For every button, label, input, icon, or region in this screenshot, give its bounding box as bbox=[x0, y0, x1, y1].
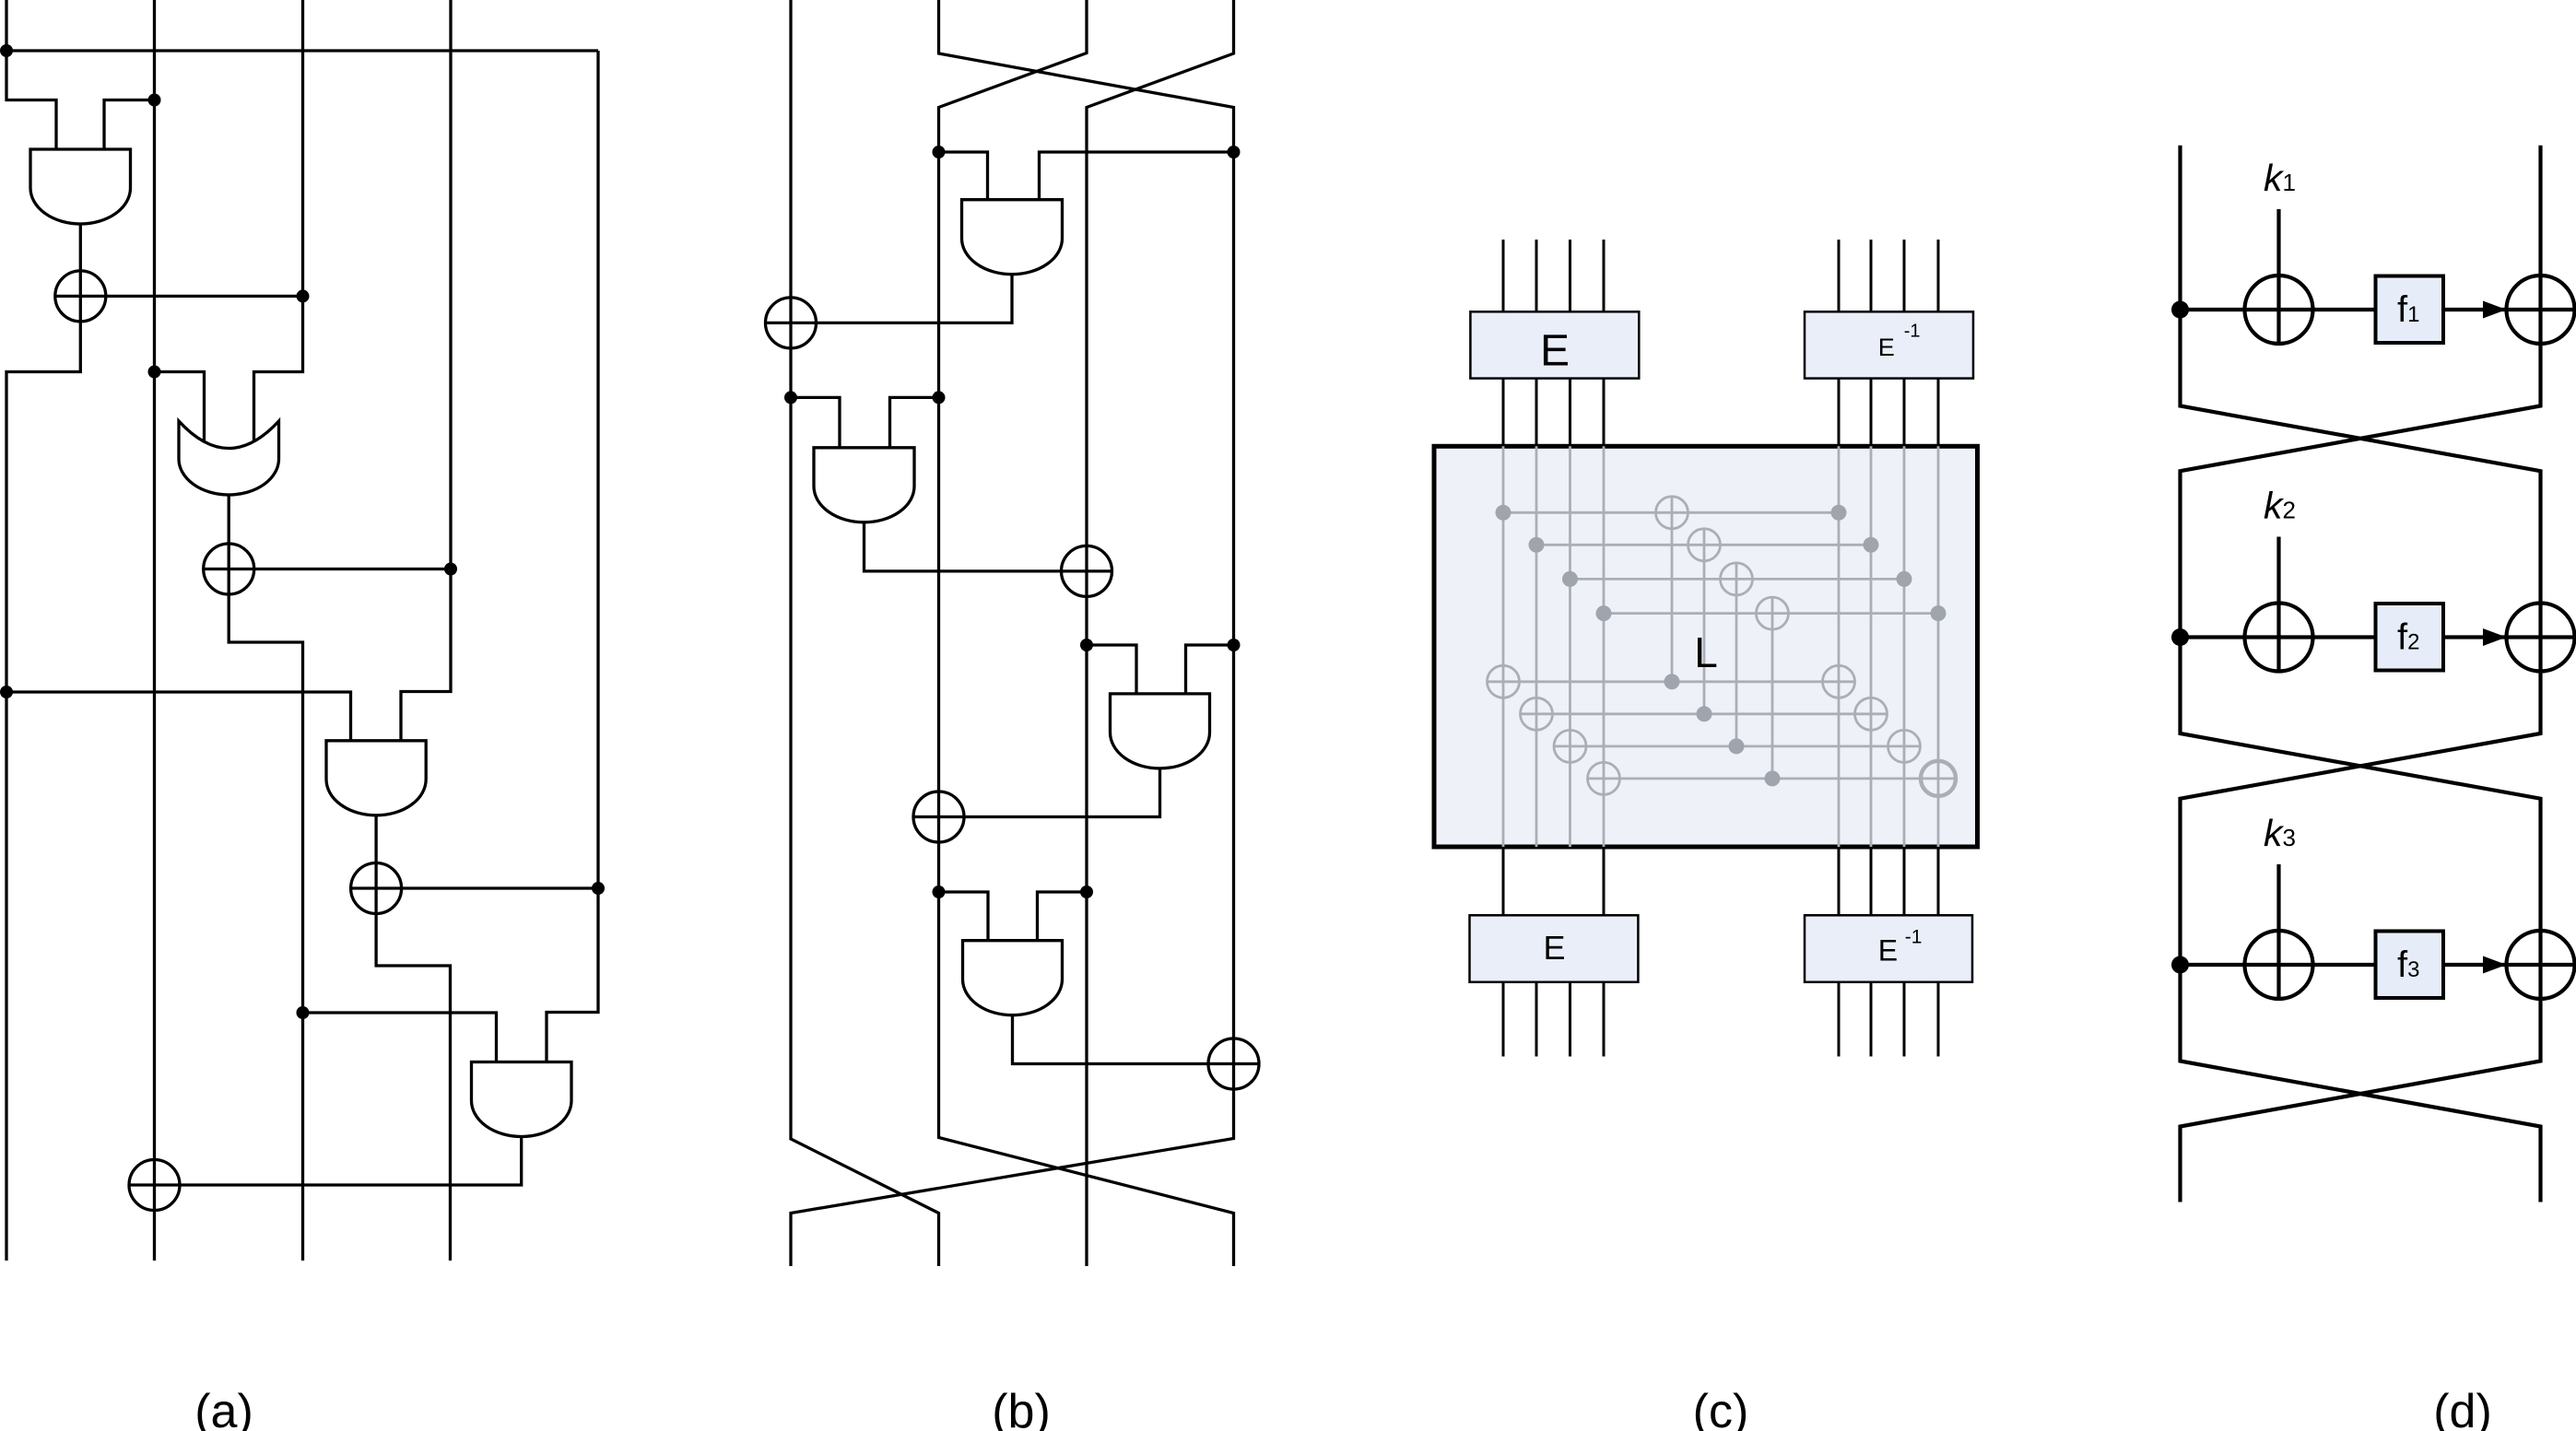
and gate A3 bbox=[326, 741, 426, 815]
wire AND4 output left through XOR X4 bbox=[129, 1137, 522, 1186]
svg-text:(c): (c) bbox=[1693, 1385, 1749, 1431]
junction dot L3 lower bbox=[297, 1006, 310, 1019]
cnot row 4 horizontal bbox=[1604, 612, 1938, 615]
xor gate Xd2 right bbox=[2507, 604, 2575, 672]
junction dot AND-B4 left bbox=[933, 886, 946, 898]
junction dot L1 top bbox=[0, 44, 13, 57]
arrowhead round 1 bbox=[2483, 301, 2507, 319]
xor gate XB3 bbox=[913, 792, 964, 842]
wire E bottom output stubs bbox=[1503, 982, 1604, 1057]
junction dot AND-B3 right bbox=[1228, 639, 1241, 651]
svg-text:-1: -1 bbox=[1904, 322, 1921, 342]
junction dot X1 on L3 bbox=[297, 289, 310, 302]
wire AND-B2 left input bbox=[791, 397, 840, 447]
svg-text:E: E bbox=[1878, 334, 1895, 361]
cnot row 2 control dots bbox=[1529, 537, 1545, 553]
cnot row 3 xor bbox=[1721, 563, 1753, 595]
wire AND1 right input from L2 bbox=[104, 100, 155, 150]
block L bbox=[1434, 446, 1978, 847]
wire L1 jog to AND1 left input bbox=[6, 51, 56, 149]
and gate BA4 bbox=[963, 941, 1063, 1015]
block E bottom bbox=[1470, 915, 1639, 982]
xor gate X3 bbox=[351, 863, 402, 914]
cnot row 3 control dots bbox=[1562, 571, 1578, 587]
wire round 3 main line bbox=[2181, 963, 2575, 967]
and gate BA3 bbox=[1111, 694, 1210, 768]
svg-text:E: E bbox=[1543, 929, 1565, 967]
cnot row 6 horizontal bbox=[1521, 712, 1888, 715]
wire AND-B3 left input bbox=[1087, 645, 1136, 694]
cnot row 5 horizontal bbox=[1488, 680, 1855, 683]
svg-text:E: E bbox=[1540, 327, 1570, 376]
xor gate XB2 bbox=[1062, 545, 1112, 596]
wire AND3 left input long horizontal from L1 bbox=[6, 692, 351, 741]
junction dot L1 middle bbox=[0, 686, 13, 698]
cnot row 1 target vertical bbox=[1671, 497, 1674, 682]
cnot row 4 xor bbox=[1757, 597, 1789, 629]
svg-text:k2: k2 bbox=[2264, 485, 2296, 527]
wire AND-B4 right input bbox=[1038, 892, 1088, 941]
wire AND-B4 left input bbox=[939, 892, 989, 941]
cnot row 3 horizontal bbox=[1570, 578, 1905, 581]
wire key k2 bbox=[2276, 537, 2280, 672]
arrowhead round 2 bbox=[2483, 628, 2507, 646]
cnot row 1 control dots bbox=[1496, 505, 1511, 521]
wire AND-B4 output right through XOR XB4 bbox=[1013, 1015, 1260, 1064]
svg-text:k3: k3 bbox=[2264, 812, 2296, 854]
f box f1 bbox=[2376, 276, 2444, 344]
junction dot AND-B2 left bbox=[784, 391, 797, 404]
junction dot AND-B1 right bbox=[1228, 146, 1241, 158]
cnot row 2 horizontal bbox=[1536, 544, 1871, 546]
junction dot AND-B1 left bbox=[933, 146, 946, 158]
wire X3 horizontal to L5 bbox=[351, 886, 598, 889]
and gate BA1 bbox=[962, 200, 1063, 275]
svg-text:-1: -1 bbox=[1905, 927, 1923, 948]
junction dot AND-B4 right bbox=[1080, 886, 1093, 898]
wire OR output through XOR X2 then jog to L3 lower rail bbox=[229, 495, 302, 1261]
wire E top to L box bbox=[1503, 379, 1604, 447]
svg-text:L: L bbox=[1694, 628, 1718, 676]
f box f2 bbox=[2376, 604, 2444, 671]
cnot row 4 control dots bbox=[1596, 605, 1612, 621]
wire E-inv top input stubs bbox=[1839, 240, 1938, 311]
junction dot AND-B3 left bbox=[1080, 639, 1093, 651]
wire X1 horizontal to L3 bbox=[55, 295, 303, 298]
junction dot AND-B2 right bbox=[933, 391, 946, 404]
cnot row 7 xor left bbox=[1554, 730, 1586, 762]
wire X2 horizontal to L4 bbox=[204, 568, 451, 570]
cnot row 8 horizontal bbox=[1588, 778, 1957, 780]
cnot row 5 middle dot bbox=[1664, 674, 1680, 689]
cnot row 6 middle dot bbox=[1697, 706, 1712, 721]
cnot row 5 xor left bbox=[1488, 665, 1520, 698]
wire AND-B3 right input bbox=[1186, 645, 1234, 694]
xor gate Xd1 left bbox=[2245, 276, 2313, 344]
junction dot L2 at AND1 input bbox=[148, 94, 161, 107]
wire AND-B1 output left through XOR XB1 bbox=[766, 275, 1013, 323]
xor gate X4 bbox=[129, 1160, 180, 1211]
xor gate XB4 bbox=[1208, 1038, 1259, 1089]
wire OR left input from L2 bbox=[155, 372, 205, 443]
block E-inverse bottom bbox=[1805, 915, 1972, 982]
wire rail L2 full height bbox=[153, 0, 156, 1261]
gray vertical wires right group inside L bbox=[1839, 446, 1938, 847]
cnot row 6 xor right bbox=[1855, 698, 1888, 730]
cnot row 3 target vertical bbox=[1735, 563, 1738, 746]
xor gate Xd3 left bbox=[2245, 931, 2313, 999]
svg-text:E: E bbox=[1878, 934, 1898, 968]
cnot row 5 xor right bbox=[1823, 665, 1855, 698]
wire round 2 main line bbox=[2181, 635, 2575, 639]
cnot row 6 xor left bbox=[1521, 698, 1553, 730]
svg-text:(d): (d) bbox=[2433, 1385, 2492, 1431]
junction dot L2 at OR branch bbox=[148, 366, 161, 379]
wire L box to E-inv bottom bbox=[1839, 847, 1938, 915]
wire round 1 main line bbox=[2181, 308, 2575, 311]
junction dot X3 on L5 bbox=[592, 882, 605, 895]
arrowhead round 3 bbox=[2483, 956, 2507, 974]
wire E-inv top to L box bbox=[1839, 379, 1938, 447]
xor gate Xd1 right bbox=[2507, 276, 2575, 344]
and gate A4 bbox=[472, 1062, 572, 1137]
cnot row 7 xor right bbox=[1888, 730, 1921, 762]
cnot row 2 target vertical bbox=[1703, 529, 1706, 714]
svg-text:(a): (a) bbox=[194, 1385, 253, 1431]
wire rail L3 upper jog to OR right input bbox=[254, 0, 303, 442]
cnot row 4 target vertical bbox=[1771, 597, 1774, 779]
junction dot X2 on L4 bbox=[444, 563, 457, 576]
xor gate Xd3 right bbox=[2507, 931, 2575, 999]
svg-text:k1: k1 bbox=[2264, 157, 2296, 199]
cnot row 1 xor bbox=[1656, 497, 1688, 529]
wire AND1 output through XOR X1 then left to L1 rail bottom bbox=[6, 224, 80, 1261]
wire feistel left rail with three crossings bbox=[2181, 146, 2541, 1202]
wire key k3 bbox=[2276, 864, 2280, 999]
wire AND-B2 right input bbox=[890, 397, 939, 447]
wire top feed from L1 to L5 bbox=[6, 49, 598, 52]
wire L box to E bottom (lines 1 and 4 only) bbox=[1503, 847, 1604, 915]
block E top bbox=[1470, 311, 1639, 378]
wire rail L1 top bbox=[5, 0, 7, 51]
wire rail L4 jog to AND3 right input bbox=[401, 0, 451, 741]
svg-text:(b): (b) bbox=[992, 1385, 1051, 1431]
xor gate X2 bbox=[204, 544, 254, 594]
wire E-inv bottom output stubs bbox=[1839, 982, 1938, 1057]
wire AND-B1 right input bbox=[1040, 152, 1234, 200]
wire E top input stubs bbox=[1503, 240, 1604, 311]
wire AND4 left input from L3 bbox=[303, 1013, 497, 1062]
wire rail L5 down to AND4 right input bbox=[547, 51, 598, 1062]
f box f3 bbox=[2376, 932, 2444, 999]
wire AND-B1 left input bbox=[939, 152, 988, 200]
junction dot round 2 bbox=[2171, 628, 2189, 646]
wire AND-B3 output left through XOR XB3 bbox=[913, 768, 1160, 817]
wire feistel right rail with three crossings bbox=[2181, 146, 2541, 1202]
or gate O1 bbox=[179, 421, 279, 495]
wire rail B2 : top cross to B4 position, bottom cross to B1... bbox=[791, 0, 1234, 1266]
cnot row 7 middle dot bbox=[1729, 738, 1745, 754]
wire key k1 bbox=[2276, 209, 2280, 344]
cnot row 2 xor bbox=[1688, 529, 1721, 561]
block E-inverse top bbox=[1805, 311, 1973, 378]
xor gate X1 bbox=[55, 271, 106, 322]
cnot row 8 xor left bbox=[1588, 762, 1620, 794]
cnot row 8 middle dot bbox=[1765, 770, 1781, 786]
cnot row 7 horizontal bbox=[1554, 745, 1921, 748]
cnot row 1 horizontal bbox=[1503, 511, 1839, 514]
junction dot round 1 bbox=[2171, 301, 2189, 319]
xor gate XB1 bbox=[766, 298, 817, 348]
and gate A1 bbox=[30, 149, 131, 224]
wire AND-B2 output right through XOR XB2 bbox=[865, 522, 1112, 571]
wire rail B3 : top cross to B2 position, bottom cross to B4 bbox=[939, 0, 1234, 1266]
gray vertical wires left group inside L bbox=[1503, 446, 1604, 847]
xor gate Xd2 left bbox=[2245, 604, 2313, 672]
wire rail B1 with bottom cross to B2 bbox=[791, 0, 939, 1266]
wire rail B4 : top cross to B3 position, straight to bottom bbox=[1087, 0, 1234, 1266]
and gate BA2 bbox=[814, 448, 914, 522]
junction dot round 3 bbox=[2171, 956, 2189, 974]
wire AND3 output through XOR X3 then jog right down bbox=[376, 815, 450, 1261]
cnot row 8 xor right bold bbox=[1921, 761, 1956, 796]
